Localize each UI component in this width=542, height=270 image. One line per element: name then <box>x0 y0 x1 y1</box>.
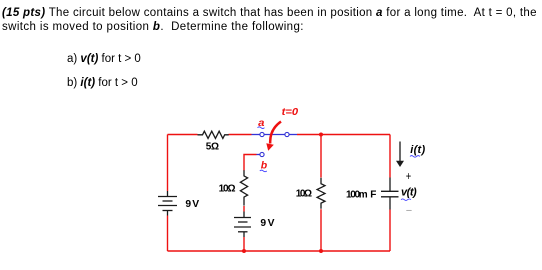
svg-text:100m: 100m <box>346 190 368 201</box>
svg-text:v(t): v(t) <box>401 187 417 199</box>
svg-text:V: V <box>192 199 199 210</box>
svg-text:i(t): i(t) <box>410 144 425 156</box>
svg-text:t=0: t=0 <box>282 107 299 118</box>
svg-text:9: 9 <box>185 199 191 210</box>
svg-text:10Ω: 10Ω <box>296 189 312 200</box>
svg-text:b: b <box>261 159 268 171</box>
svg-text:a: a <box>258 117 264 129</box>
svg-text:F: F <box>370 190 376 201</box>
svg-text:10Ω: 10Ω <box>219 184 236 195</box>
svg-text:−: − <box>406 205 412 217</box>
svg-text:9: 9 <box>260 218 266 229</box>
svg-text:+: + <box>406 169 412 183</box>
svg-text:V: V <box>268 218 275 229</box>
svg-text:5Ω: 5Ω <box>206 142 219 153</box>
